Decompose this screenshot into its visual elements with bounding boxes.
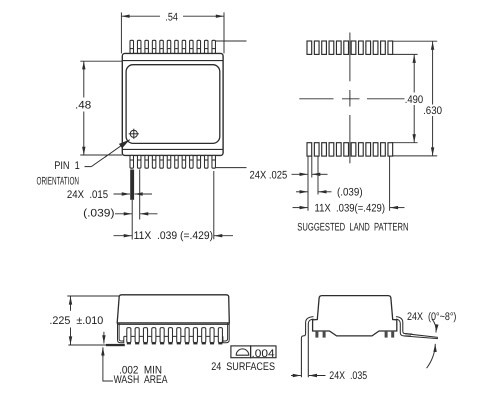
reference line from top pin tips — [216, 40, 247, 42]
left lead bent down (end view) — [301, 317, 313, 378]
PIN 1 leader line with arrowhead — [85, 140, 130, 167]
dimension (.039) pin pitch (top view) — [115, 213, 158, 215]
right end lead profile (gull wing) — [223, 323, 229, 343]
dimension 24X .025 (pad width) — [292, 173, 328, 175]
dimension .54 (package width) — [121, 12, 224, 53]
top pins row (12 pins, top view) — [130, 40, 215, 53]
svg-text:11X .039(=.429): 11X .039(=.429) — [315, 203, 386, 215]
.002 MIN wash area arrows — [103, 332, 113, 381]
foot angle arc 24X (0°~8°) — [427, 319, 437, 368]
svg-text:.630: .630 — [423, 105, 442, 117]
svg-text:WASH AREA: WASH AREA — [114, 374, 168, 386]
svg-text:24X .025: 24X .025 — [250, 170, 288, 182]
land pattern top pads row (12 pads) — [307, 41, 393, 54]
svg-text:24X .035: 24X .035 — [329, 370, 367, 382]
side view lead frame rail — [124, 335, 223, 337]
dimension .490 (inner pad span) — [392, 54, 417, 142]
seating plane / wash area baseline — [68, 344, 106, 346]
svg-text:.48: .48 — [75, 100, 91, 112]
dimension 24X .015 (lead width) — [114, 193, 153, 195]
dimension (.039) pad pitch — [296, 191, 332, 193]
side view leads (12 gull-wing leads) — [127, 328, 223, 343]
package body (top view) — [122, 53, 223, 155]
dimension .630 (outer pad span) — [392, 41, 437, 156]
svg-text:24 SURFACES: 24 SURFACES — [211, 361, 275, 373]
dimension .225 ±.010 (height) — [67, 296, 119, 345]
svg-text:(.039): (.039) — [337, 187, 363, 199]
reference line from bottom pin tips — [216, 167, 247, 169]
pin 1 lead (highlighted thick) — [130, 170, 134, 200]
land pattern bottom pads row (12 pads) — [307, 143, 393, 156]
svg-text:.490: .490 — [405, 94, 423, 106]
vertical centerline — [349, 33, 351, 164]
pin 1 orientation mark (circle with cross) — [129, 129, 139, 139]
bottom pins row (12 pins, top view) — [130, 155, 215, 168]
svg-text:24X .015: 24X .015 — [67, 189, 108, 201]
dimension 24X .035 (lead width, end view) — [291, 375, 326, 377]
dimension 11X .039(=.429) pad span — [293, 207, 405, 209]
svg-text:.54: .54 — [165, 12, 178, 24]
right lead with gull-wing foot (end view) — [396, 317, 438, 339]
land pattern extension lines — [308, 156, 390, 211]
dimension .48 (package height) — [80, 61, 122, 155]
end view lead feet stubs — [315, 331, 394, 338]
svg-text:(.039): (.039) — [83, 207, 114, 219]
lead feet contacts — [127, 342, 223, 344]
left end lead profile (gull wing) — [118, 323, 124, 343]
package body (side view) — [117, 295, 229, 325]
svg-text:11X .039 (=.429): 11X .039 (=.429) — [134, 230, 214, 242]
svg-text:.225 ±.010: .225 ±.010 — [49, 315, 103, 327]
package body (end view) — [313, 296, 397, 336]
svg-text:PIN 1: PIN 1 — [54, 160, 80, 172]
dimension 11X .039 (=.429) (top view pin span) — [114, 235, 234, 237]
pin 1 centerline extension — [131, 200, 133, 240]
svg-text:ORIENTATION: ORIENTATION — [37, 175, 80, 187]
horizontal centerline — [299, 98, 404, 100]
pin 12 extension line — [213, 171, 215, 239]
surface profile feature control frame — [231, 346, 276, 358]
svg-text:SUGGESTED LAND PATTERN: SUGGESTED LAND PATTERN — [297, 222, 408, 234]
svg-text:24X (0°~8°): 24X (0°~8°) — [407, 311, 456, 323]
pin 2 extension line — [139, 170, 141, 220]
svg-text:.004: .004 — [252, 348, 275, 360]
